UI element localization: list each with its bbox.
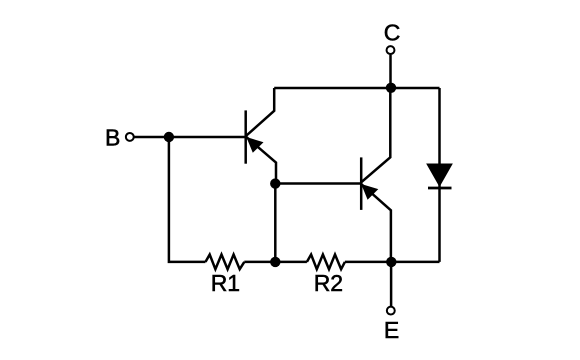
node E rail junction dot: [386, 257, 396, 267]
svg-text:E: E: [384, 317, 399, 343]
transistor Q1 emitter arrow: [246, 137, 263, 153]
wire R2 to E node to diode bottom: [345, 261, 440, 264]
wire middle vertical: [274, 184, 277, 262]
transistor Q2 base bar: [360, 157, 363, 210]
node R1/R2 junction dot: [270, 257, 280, 267]
wire top rail: [274, 87, 439, 90]
transistor Q1 base bar: [244, 110, 247, 163]
wire Q1 emitter node to Q2 base: [275, 182, 360, 185]
terminal C circle: [387, 46, 395, 54]
wire left vertical and bottom-left rail: [169, 137, 206, 262]
transistor Q2 emitter: [361, 184, 391, 262]
wire diode branch vertical: [438, 88, 441, 262]
terminal B circle: [126, 133, 134, 141]
transistor Q2 collector: [361, 88, 390, 182]
wire C terminal: [389, 55, 392, 88]
wire E terminal: [390, 262, 393, 306]
resistor R2: [307, 255, 345, 270]
node Q1-emitter/Q2-base junction dot: [270, 178, 280, 188]
transistor Q1 collector: [246, 88, 274, 136]
svg-text:C: C: [384, 20, 401, 46]
svg-text:R2: R2: [314, 270, 343, 296]
diode D1 cathode bar: [428, 187, 452, 190]
node B junction dot: [164, 132, 174, 142]
transistor Q1 emitter: [246, 137, 276, 184]
resistor R1: [206, 255, 245, 270]
wire B to Q1 base: [134, 136, 244, 139]
svg-text:B: B: [105, 125, 120, 151]
terminal E circle: [387, 307, 395, 315]
wire R1 to R2: [244, 261, 307, 264]
diode D1 triangle: [427, 164, 452, 186]
transistor Q2 emitter arrow: [361, 184, 378, 200]
node C rail junction dot: [386, 83, 396, 93]
svg-text:R1: R1: [211, 270, 240, 296]
